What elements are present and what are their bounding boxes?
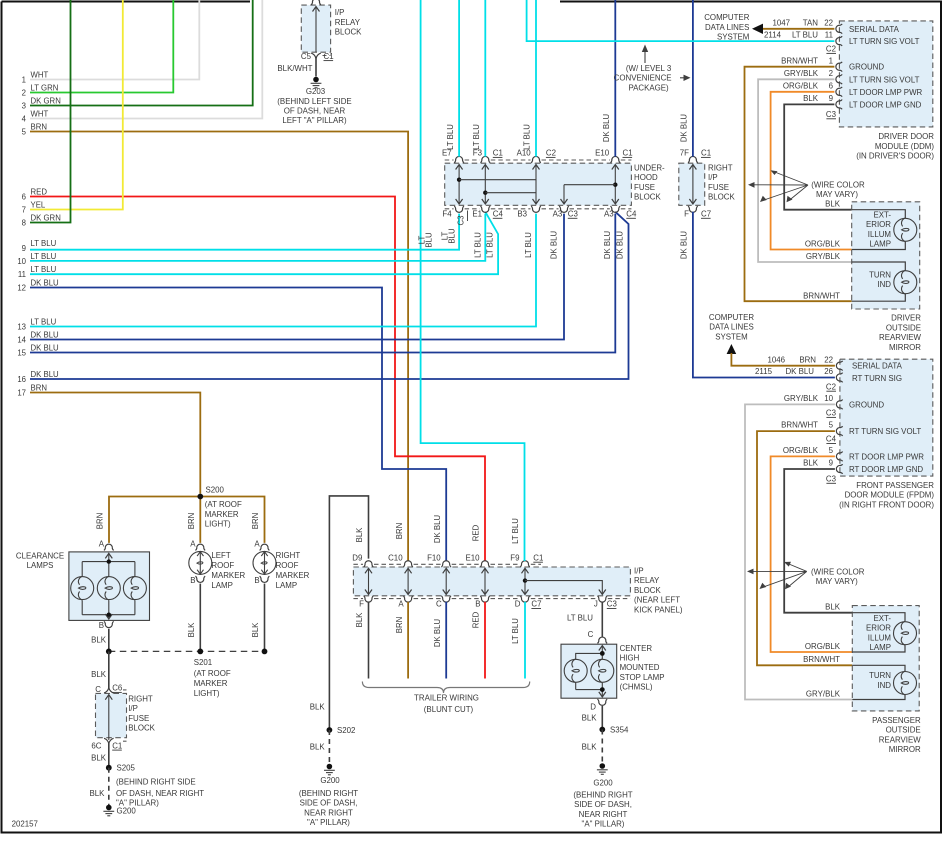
svg-text:7: 7 bbox=[22, 205, 26, 214]
splice S200 bbox=[197, 486, 242, 529]
svg-text:DRIVER: DRIVER bbox=[891, 314, 921, 323]
svg-text:LAMP: LAMP bbox=[870, 643, 892, 652]
svg-text:BRN: BRN bbox=[96, 513, 105, 529]
wire BLK S354 to G200 bbox=[582, 730, 603, 764]
pin F9 connector C1 I/P relay block bbox=[510, 553, 543, 567]
svg-text:DK BLU: DK BLU bbox=[31, 330, 60, 339]
svg-text:11: 11 bbox=[18, 270, 26, 279]
svg-text:6: 6 bbox=[829, 81, 834, 90]
svg-text:NEAR RIGHT: NEAR RIGHT bbox=[304, 808, 353, 817]
svg-text:OUTSIDE: OUTSIDE bbox=[886, 323, 921, 332]
svg-text:GRY/BLK: GRY/BLK bbox=[784, 394, 819, 403]
svg-text:C4: C4 bbox=[826, 435, 837, 444]
svg-text:IND: IND bbox=[877, 280, 891, 289]
wire ORG/BLK DDM door lamp pwr to driver ext illum lamp bbox=[771, 81, 852, 249]
svg-text:GROUND: GROUND bbox=[849, 63, 884, 72]
svg-text:2: 2 bbox=[829, 69, 833, 78]
svg-text:DK BLU: DK BLU bbox=[615, 231, 624, 260]
svg-text:1046: 1046 bbox=[767, 355, 785, 364]
pin F connector C7 right I/P fuse block bbox=[684, 206, 711, 218]
svg-text:BLOCK: BLOCK bbox=[335, 28, 362, 37]
svg-text:LT DOOR LMP PWR: LT DOOR LMP PWR bbox=[849, 88, 923, 97]
DDM pin 22 bbox=[836, 24, 842, 34]
svg-text:LAMP: LAMP bbox=[211, 581, 233, 590]
wire ORG/BLK FPDM door lamp pwr to passenger ext illum lamp bbox=[771, 446, 853, 652]
svg-text:"A" PILLAR): "A" PILLAR) bbox=[116, 799, 159, 808]
wire BRN/WHT FPDM to passenger turn indicator bbox=[757, 421, 852, 666]
svg-text:C5: C5 bbox=[301, 52, 312, 61]
svg-text:7F: 7F bbox=[680, 149, 689, 158]
svg-text:13: 13 bbox=[17, 322, 26, 331]
svg-text:BLK: BLK bbox=[825, 199, 841, 208]
svg-text:(WIRE COLOR: (WIRE COLOR bbox=[811, 568, 865, 577]
svg-text:OF DASH, NEAR RIGHT: OF DASH, NEAR RIGHT bbox=[116, 789, 204, 798]
svg-text:F9: F9 bbox=[510, 553, 520, 562]
svg-text:BLK: BLK bbox=[187, 622, 196, 638]
svg-text:BLK: BLK bbox=[825, 603, 841, 612]
clearance lamps bbox=[16, 552, 150, 621]
svg-text:EXT-: EXT- bbox=[873, 614, 891, 623]
svg-text:BLK: BLK bbox=[355, 612, 364, 628]
svg-text:RED: RED bbox=[31, 187, 48, 196]
I/P relay block (top) bbox=[301, 0, 362, 56]
svg-text:C7: C7 bbox=[531, 600, 541, 609]
note wire color may vary (driver) bbox=[748, 170, 865, 202]
svg-text:1047: 1047 bbox=[772, 18, 790, 27]
svg-text:FUSE: FUSE bbox=[128, 714, 149, 723]
wire RED trailer B bbox=[484, 602, 486, 679]
pin C10 I/P relay block bbox=[388, 553, 413, 567]
svg-text:RIGHT: RIGHT bbox=[708, 163, 733, 172]
svg-text:10: 10 bbox=[824, 394, 833, 403]
wire 6 RED bbox=[22, 187, 485, 628]
svg-text:DOOR MODULE (FPDM): DOOR MODULE (FPDM) bbox=[845, 491, 935, 500]
svg-text:DATA LINES: DATA LINES bbox=[709, 323, 753, 332]
svg-text:C1: C1 bbox=[623, 149, 633, 158]
wire DK BLU to E10 bbox=[602, 0, 615, 157]
svg-text:G203: G203 bbox=[306, 87, 326, 96]
svg-text:C3: C3 bbox=[568, 210, 579, 219]
wire LT BLU to F3 bbox=[472, 0, 485, 157]
svg-text:(BEHIND RIGHT: (BEHIND RIGHT bbox=[573, 791, 632, 800]
svg-text:9: 9 bbox=[829, 94, 834, 103]
svg-text:C3: C3 bbox=[607, 600, 618, 609]
svg-text:WHT: WHT bbox=[31, 70, 49, 79]
pin J connector C3 I/P relay block bbox=[594, 596, 618, 609]
wire 3 DK GRN bbox=[22, 0, 253, 110]
wire GRY/BLK DDM to driver turn indicator bbox=[758, 69, 852, 262]
svg-text:C: C bbox=[95, 685, 101, 694]
svg-text:S202: S202 bbox=[337, 726, 355, 735]
svg-text:SIDE OF DASH,: SIDE OF DASH, bbox=[300, 799, 358, 808]
svg-text:C4: C4 bbox=[493, 210, 504, 219]
ground G200 (behind right side of dash, near right A pillar) bbox=[103, 777, 204, 815]
pin B left roof marker lamp bbox=[190, 576, 205, 585]
pin E7 underhood fuse block bbox=[442, 149, 464, 163]
svg-text:5: 5 bbox=[22, 127, 27, 136]
splice S205 bbox=[106, 764, 136, 773]
wire BLK trailer F bbox=[355, 602, 369, 679]
svg-text:LAMPS: LAMPS bbox=[27, 561, 54, 570]
pin E10 connector C1 I/P relay block bbox=[465, 553, 489, 567]
svg-text:DK BLU: DK BLU bbox=[31, 278, 60, 287]
pin D9 I/P relay block bbox=[352, 553, 373, 567]
pin D I/P relay block bbox=[515, 596, 530, 609]
svg-text:BRN/WHT: BRN/WHT bbox=[803, 655, 840, 664]
wire 13 LT BLU bbox=[17, 214, 536, 332]
svg-text:15: 15 bbox=[17, 348, 26, 357]
svg-text:17: 17 bbox=[17, 388, 26, 397]
wire BLK DDM door lamp gnd to driver ext illum lamp bbox=[784, 94, 852, 210]
svg-text:16: 16 bbox=[17, 375, 26, 384]
svg-text:C2: C2 bbox=[826, 382, 836, 391]
DDM pin 9 bbox=[829, 94, 842, 109]
right roof marker lamp bbox=[253, 551, 310, 590]
svg-text:BLK: BLK bbox=[582, 713, 598, 722]
svg-text:22: 22 bbox=[824, 18, 833, 27]
svg-text:LT BLU: LT BLU bbox=[567, 614, 593, 623]
svg-text:C3: C3 bbox=[826, 409, 837, 418]
wire 9 LT BLU bbox=[22, 214, 459, 253]
FPDM pin 5 C4 bbox=[829, 421, 843, 436]
svg-text:BRN: BRN bbox=[187, 513, 196, 529]
svg-text:BLU: BLU bbox=[448, 228, 457, 244]
svg-text:STOP LAMP: STOP LAMP bbox=[620, 673, 665, 682]
fuse block internal link E7-F4-A10 bbox=[456, 165, 536, 205]
svg-text:HOOD: HOOD bbox=[634, 173, 658, 182]
svg-text:MIRROR: MIRROR bbox=[889, 745, 921, 754]
svg-text:DK BLU: DK BLU bbox=[31, 343, 60, 352]
wire 1 WHT bbox=[22, 0, 200, 84]
svg-text:DK BLU: DK BLU bbox=[433, 619, 442, 648]
svg-text:2115: 2115 bbox=[755, 367, 773, 376]
svg-text:E10: E10 bbox=[465, 553, 480, 562]
pin C I/P relay block bbox=[436, 596, 451, 609]
svg-text:C3: C3 bbox=[826, 475, 837, 484]
wire LT BLU 2114 turn sig (DDM) bbox=[527, 0, 835, 41]
wire 5 BRN bbox=[22, 122, 408, 633]
svg-text:RT DOOR LMP GND: RT DOOR LMP GND bbox=[849, 465, 923, 474]
svg-text:BLK: BLK bbox=[355, 527, 364, 543]
left roof marker lamp bbox=[189, 551, 246, 590]
svg-text:FUSE: FUSE bbox=[634, 183, 655, 192]
svg-text:22: 22 bbox=[824, 355, 833, 364]
svg-text:C: C bbox=[436, 600, 442, 609]
svg-text:COMPUTER: COMPUTER bbox=[704, 13, 749, 22]
wire DK BLU to 7F bbox=[680, 0, 693, 157]
svg-text:(NEAR LEFT: (NEAR LEFT bbox=[634, 596, 680, 605]
wire GRY/BLK FPDM ground to passenger turn indicator bbox=[745, 394, 852, 700]
svg-text:SIDE OF DASH,: SIDE OF DASH, bbox=[574, 800, 632, 809]
svg-text:(WIRE COLOR: (WIRE COLOR bbox=[811, 181, 865, 190]
svg-text:LT BLU: LT BLU bbox=[511, 518, 520, 544]
svg-text:11: 11 bbox=[825, 31, 833, 40]
svg-text:CENTER: CENTER bbox=[620, 644, 653, 653]
wire 14 DK BLU bbox=[17, 214, 564, 345]
svg-text:C4: C4 bbox=[626, 210, 637, 219]
svg-text:BRN: BRN bbox=[395, 617, 404, 633]
wire BLK I/P relay block D9 to S202 bbox=[310, 496, 369, 730]
note wire color may vary (passenger) bbox=[747, 562, 865, 590]
pin D CHMSL bbox=[590, 699, 607, 711]
svg-text:S354: S354 bbox=[610, 726, 629, 735]
svg-text:12: 12 bbox=[17, 283, 26, 292]
svg-text:DRIVER DOOR: DRIVER DOOR bbox=[878, 132, 934, 141]
pin E10 connector C1 underhood fuse block bbox=[595, 149, 632, 163]
svg-text:6C: 6C bbox=[91, 741, 101, 750]
wire BLK S201 to right I/P fuse block C bbox=[91, 651, 109, 688]
svg-text:(W/ LEVEL 3: (W/ LEVEL 3 bbox=[626, 64, 672, 73]
svg-text:LT BLU: LT BLU bbox=[31, 252, 57, 261]
wire BLK right I/P fuse block to S205 bbox=[91, 743, 109, 768]
fuse block internal link A10-B3 bbox=[533, 165, 540, 205]
pin F10 I/P relay block bbox=[427, 553, 451, 567]
right I/P fuse block (lower) bbox=[96, 690, 156, 741]
wire 10 LT BLU bbox=[17, 214, 485, 266]
svg-text:B3: B3 bbox=[517, 210, 527, 219]
svg-text:BLK: BLK bbox=[582, 743, 598, 752]
pin A clearance lamps bbox=[99, 539, 114, 550]
svg-text:LEFT "A" PILLAR): LEFT "A" PILLAR) bbox=[282, 116, 347, 125]
svg-text:ORG/BLK: ORG/BLK bbox=[783, 446, 819, 455]
ground G200 (near right A pillar, CHMSL) bbox=[573, 763, 632, 828]
svg-text:ILLUM: ILLUM bbox=[868, 230, 891, 239]
svg-text:GRY/BLK: GRY/BLK bbox=[784, 69, 819, 78]
svg-text:MIRROR: MIRROR bbox=[889, 343, 921, 352]
right I/P fuse block bbox=[679, 163, 736, 205]
svg-text:BLU: BLU bbox=[425, 232, 434, 248]
svg-text:C1: C1 bbox=[112, 741, 122, 750]
svg-text:A: A bbox=[254, 539, 260, 548]
svg-text:6: 6 bbox=[22, 192, 26, 201]
svg-text:LT BLU: LT BLU bbox=[486, 232, 495, 258]
svg-text:PACKAGE): PACKAGE) bbox=[628, 83, 669, 92]
driver door module (DDM) bbox=[826, 21, 934, 161]
svg-text:ORG/BLK: ORG/BLK bbox=[805, 642, 841, 651]
svg-text:5: 5 bbox=[829, 421, 834, 430]
pin B right roof marker lamp bbox=[254, 576, 269, 585]
pin A3 connector C4 underhood fuse block bbox=[604, 206, 637, 218]
svg-text:ORG/BLK: ORG/BLK bbox=[805, 239, 841, 248]
svg-text:WHT: WHT bbox=[31, 109, 49, 118]
svg-text:ORG/BLK: ORG/BLK bbox=[783, 81, 819, 90]
svg-text:5: 5 bbox=[829, 446, 834, 455]
svg-text:(BEHIND RIGHT SIDE: (BEHIND RIGHT SIDE bbox=[116, 777, 196, 786]
svg-text:I/P: I/P bbox=[335, 8, 345, 17]
svg-text:B: B bbox=[254, 576, 259, 585]
svg-text:DK GRN: DK GRN bbox=[31, 213, 61, 222]
svg-text:HIGH: HIGH bbox=[620, 654, 640, 663]
svg-text:S205: S205 bbox=[117, 764, 136, 773]
svg-text:TRAILER WIRING: TRAILER WIRING bbox=[414, 694, 479, 703]
svg-text:G200: G200 bbox=[593, 779, 613, 788]
wire LT BLU to E7 bbox=[446, 0, 459, 157]
svg-text:I/P: I/P bbox=[708, 173, 718, 182]
svg-text:RELAY: RELAY bbox=[335, 18, 361, 27]
svg-text:KICK PANEL): KICK PANEL) bbox=[634, 605, 683, 614]
svg-text:DK BLU: DK BLU bbox=[680, 231, 689, 260]
DDM pin 2 bbox=[829, 69, 842, 84]
svg-text:GRY/BLK: GRY/BLK bbox=[806, 252, 841, 261]
svg-text:D: D bbox=[590, 702, 596, 711]
svg-text:(BEHIND LEFT SIDE: (BEHIND LEFT SIDE bbox=[277, 97, 351, 106]
svg-text:C3: C3 bbox=[826, 110, 837, 119]
svg-text:LT BLU: LT BLU bbox=[524, 232, 533, 258]
svg-text:CONVENIENCE: CONVENIENCE bbox=[614, 74, 672, 83]
svg-text:E10: E10 bbox=[595, 149, 610, 158]
turn indicator (passenger) bbox=[852, 665, 916, 699]
wire BRN/WHT DDM ground to driver turn indicator bbox=[745, 56, 852, 301]
svg-text:GRY/BLK: GRY/BLK bbox=[806, 689, 841, 698]
svg-text:C1: C1 bbox=[493, 149, 503, 158]
svg-text:(AT ROOF: (AT ROOF bbox=[194, 669, 231, 678]
wire 11 LT BLU bbox=[18, 212, 498, 279]
svg-text:DK BLU: DK BLU bbox=[433, 515, 442, 544]
svg-text:10: 10 bbox=[17, 257, 26, 266]
svg-text:OUTSIDE: OUTSIDE bbox=[886, 726, 921, 735]
wire BRN S200 marker lamp feed bbox=[96, 497, 265, 543]
svg-text:(IN RIGHT FRONT DOOR): (IN RIGHT FRONT DOOR) bbox=[839, 500, 934, 509]
wire LT BLU trailer D bbox=[524, 602, 526, 679]
svg-text:LT BLU: LT BLU bbox=[792, 31, 818, 40]
svg-text:BLK: BLK bbox=[251, 622, 260, 638]
svg-text:SERIAL DATA: SERIAL DATA bbox=[852, 362, 903, 371]
svg-text:RED: RED bbox=[472, 524, 481, 541]
svg-text:PASSENGER: PASSENGER bbox=[872, 716, 921, 725]
svg-text:A: A bbox=[99, 539, 105, 548]
svg-text:I/P: I/P bbox=[128, 704, 138, 713]
wire LT BLU to F9 I/P relay block bbox=[418, 0, 525, 644]
svg-text:BRN/WHT: BRN/WHT bbox=[781, 421, 818, 430]
wire DK BLU trailer C bbox=[445, 602, 447, 679]
svg-text:ROOF: ROOF bbox=[276, 561, 299, 570]
svg-text:A: A bbox=[398, 600, 404, 609]
svg-text:A3: A3 bbox=[553, 210, 563, 219]
wire BLK S205 to G200 bbox=[89, 768, 108, 805]
pin A3 connector C3 underhood fuse block bbox=[553, 206, 579, 218]
svg-text:TURN: TURN bbox=[869, 671, 891, 680]
FPDM pin 22 bbox=[836, 361, 842, 371]
svg-text:BRN: BRN bbox=[799, 355, 816, 364]
underhood fuse block bbox=[445, 160, 665, 209]
FPDM pin 5 C3 bbox=[829, 446, 843, 461]
wire BLK FPDM door lamp gnd to passenger ext illum lamp bbox=[784, 459, 852, 613]
fuse block internal link E10-A3-A3 bbox=[561, 165, 619, 205]
svg-text:BLK/WHT: BLK/WHT bbox=[277, 64, 312, 73]
svg-text:(IN DRIVER'S DOOR): (IN DRIVER'S DOOR) bbox=[856, 152, 934, 161]
FPDM pin 10 bbox=[824, 394, 842, 409]
svg-text:F: F bbox=[684, 210, 689, 219]
wire 17 BRN bbox=[17, 383, 200, 493]
svg-text:C: C bbox=[588, 630, 594, 639]
pin F3 connector C1 underhood fuse block bbox=[473, 149, 503, 163]
svg-text:F10: F10 bbox=[427, 553, 441, 562]
wire 8 DK GRN bbox=[22, 0, 71, 227]
wire DK BLU 2115 rt turn sig from right I/P fuse block F to FPDM bbox=[680, 212, 835, 378]
svg-text:LT BLU: LT BLU bbox=[31, 265, 57, 274]
wire BRN trailer A bbox=[407, 602, 409, 679]
svg-text:MODULE (DDM): MODULE (DDM) bbox=[875, 142, 935, 151]
svg-text:9: 9 bbox=[829, 459, 834, 468]
svg-text:UNDER-: UNDER- bbox=[634, 163, 665, 172]
driver outside rearview mirror assembly bbox=[852, 202, 922, 352]
svg-text:TAN: TAN bbox=[803, 18, 818, 27]
svg-text:C6: C6 bbox=[112, 684, 123, 693]
svg-text:NEAR RIGHT: NEAR RIGHT bbox=[579, 810, 628, 819]
svg-text:LT BLU: LT BLU bbox=[511, 618, 520, 644]
svg-text:COMPUTER: COMPUTER bbox=[709, 313, 754, 322]
svg-text:ROOF: ROOF bbox=[211, 561, 234, 570]
svg-text:3: 3 bbox=[22, 101, 26, 110]
svg-text:C10: C10 bbox=[388, 553, 403, 562]
svg-text:REARVIEW: REARVIEW bbox=[879, 735, 921, 744]
svg-text:B: B bbox=[475, 600, 480, 609]
svg-text:DK BLU: DK BLU bbox=[785, 367, 814, 376]
svg-text:A3: A3 bbox=[604, 210, 614, 219]
svg-text:FRONT PASSENGER: FRONT PASSENGER bbox=[856, 481, 934, 490]
svg-text:ILLUM: ILLUM bbox=[868, 633, 891, 642]
svg-text:DK GRN: DK GRN bbox=[31, 96, 61, 105]
svg-text:MAY VARY): MAY VARY) bbox=[816, 190, 858, 199]
svg-text:ERIOR: ERIOR bbox=[866, 624, 891, 633]
svg-text:RT DOOR LMP PWR: RT DOOR LMP PWR bbox=[849, 452, 924, 461]
svg-text:2114: 2114 bbox=[764, 31, 782, 40]
svg-text:LT BLU: LT BLU bbox=[523, 124, 532, 150]
svg-text:A: A bbox=[190, 539, 196, 548]
trailer wiring note and brace bbox=[362, 682, 529, 715]
svg-text:BLK: BLK bbox=[803, 459, 819, 468]
svg-text:LT BLU: LT BLU bbox=[473, 232, 482, 258]
pin C connector C6 right I/P fuse block bbox=[95, 684, 123, 694]
svg-text:BRN: BRN bbox=[395, 523, 404, 539]
svg-text:202157: 202157 bbox=[12, 820, 38, 829]
svg-text:C1: C1 bbox=[324, 52, 334, 61]
svg-text:(AT ROOF: (AT ROOF bbox=[205, 500, 242, 509]
svg-text:YEL: YEL bbox=[31, 200, 46, 209]
svg-text:MARKER: MARKER bbox=[211, 571, 245, 580]
svg-text:C2: C2 bbox=[826, 45, 836, 54]
svg-text:RELAY: RELAY bbox=[634, 576, 660, 585]
DDM pin 1 bbox=[829, 56, 842, 71]
svg-text:SERIAL DATA: SERIAL DATA bbox=[849, 25, 900, 34]
svg-text:BRN: BRN bbox=[251, 513, 260, 529]
svg-text:MARKER: MARKER bbox=[205, 510, 239, 519]
pin 7F connector C1 right I/P fuse block bbox=[680, 149, 711, 163]
pin F4 connector C3 underhood fuse block bbox=[442, 206, 467, 225]
svg-text:BRN: BRN bbox=[31, 122, 47, 131]
svg-text:BRN/WHT: BRN/WHT bbox=[781, 56, 818, 65]
svg-text:C2: C2 bbox=[546, 149, 556, 158]
svg-text:BLK: BLK bbox=[310, 743, 326, 752]
svg-text:BLK: BLK bbox=[310, 703, 326, 712]
svg-text:RIGHT: RIGHT bbox=[276, 551, 301, 560]
svg-text:DK BLU: DK BLU bbox=[602, 114, 611, 143]
wire BLK clearance lamps B to S201 bbox=[91, 629, 109, 652]
FPDM pin 9 bbox=[829, 459, 843, 474]
front passenger door module (FPDM) bbox=[826, 359, 934, 509]
svg-text:RT TURN SIG: RT TURN SIG bbox=[852, 374, 902, 383]
pin C CHMSL bbox=[597, 637, 607, 643]
svg-text:OF DASH, NEAR: OF DASH, NEAR bbox=[284, 107, 346, 116]
center high mounted stop lamp (CHMSL) bbox=[561, 644, 664, 698]
splice S202 bbox=[327, 726, 356, 735]
svg-text:MARKER: MARKER bbox=[194, 679, 228, 688]
svg-text:BLOCK: BLOCK bbox=[634, 586, 661, 595]
pin B clearance lamps bbox=[99, 621, 114, 630]
svg-text:LT GRN: LT GRN bbox=[31, 83, 59, 92]
pin 6C connector C1 right I/P fuse block bbox=[91, 738, 122, 750]
svg-text:ERIOR: ERIOR bbox=[866, 220, 891, 229]
